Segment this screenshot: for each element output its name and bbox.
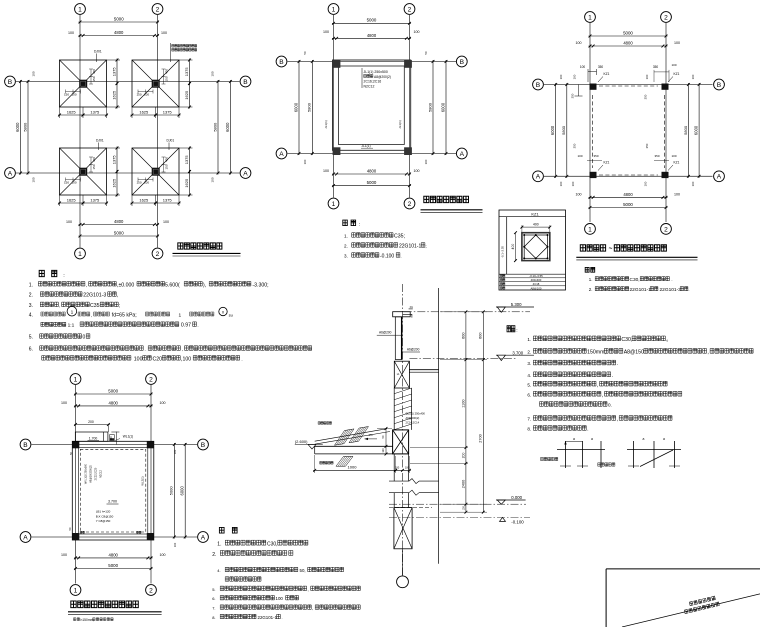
svg-text:1625: 1625 [184,90,189,100]
svg-text:B: B [243,79,248,86]
svg-text:A: A [8,170,13,177]
svg-text:5.: 5. [212,587,215,592]
svg-text:100: 100 [577,154,582,158]
svg-text:400: 400 [92,157,96,162]
svg-text:。: 。 [666,337,671,343]
svg-text:;: ; [119,303,120,309]
svg-text:.: . [688,287,689,292]
foundation note 4 line2 [41,322,66,326]
svg-text:150mm,: 150mm, [587,350,606,356]
plan2 right dimension 6000 [445,60,447,155]
footing note two lines at F2 with leader [172,44,197,47]
plan1 right dimension 6000 [230,80,232,175]
plan4 grid bubble B left [20,439,31,450]
F1 bottom dimension 1625/1375 [59,107,61,118]
svg-text:150: 150 [92,164,96,169]
svg-text:1: 1 [332,6,336,13]
break line symbol [389,480,409,482]
svg-text:5800: 5800 [22,122,27,132]
F3 side dimension 1375/1625 [107,147,121,149]
footing DJ01 F2 outline with diagonals [132,60,179,107]
plan2 left dimension 5800 [311,60,313,155]
roof level 3.700 dash-dot line [409,357,516,359]
svg-text:a: a [591,437,593,441]
svg-text:3.700: 3.700 [512,350,523,355]
plan1 grid bubble 1 bottom [75,248,86,259]
svg-text:A8@100/200(2): A8@100/200(2) [90,465,93,483]
plan4 grid bubble B right [198,439,209,450]
plan3 grid line 1 (vertical) [589,23,591,222]
svg-text:1375: 1375 [163,197,173,202]
svg-text:1: 1 [74,376,78,383]
svg-text:,: , [91,312,92,317]
KZ1 section detail: outer stirrup [522,233,550,261]
svg-text:3.: 3. [344,254,348,259]
plan4 grid bubble 1 bottom [70,585,81,596]
svg-text:100: 100 [173,542,177,547]
column KZ1 at plan3 2A [662,172,669,178]
svg-text:,: , [182,347,183,352]
svg-text:2.: 2. [212,552,216,558]
svg-text:B: B [279,59,284,66]
plan2 left dimension 6000 [298,60,300,155]
svg-text:5000: 5000 [114,230,124,235]
svg-text:A: A [536,174,541,181]
svg-text:DJ01: DJ01 [94,50,102,54]
svg-text:1.: 1. [217,542,221,548]
svg-text:4800: 4800 [367,33,377,38]
title block rotated text line1 [689,596,715,606]
svg-text:100: 100 [61,553,67,557]
svg-text:600: 600 [461,333,465,339]
svg-text:,100: ,100 [181,356,191,362]
svg-text:2.: 2. [344,244,348,249]
svg-text:100: 100 [134,356,143,362]
canopy dim 200 [74,424,110,426]
svg-text:1: 1 [71,309,74,315]
plan1 top dimension 100+4800+100 [79,35,160,37]
svg-text:6000: 6000 [440,102,445,112]
svg-text:100: 100 [160,553,166,557]
plan4 right dimension 6000 [184,443,186,539]
plan1 grid line 2 (vertical) [157,15,159,248]
svg-text:350: 350 [645,143,649,148]
svg-text:DJ01: DJ01 [167,139,175,143]
svg-text:400: 400 [165,69,169,74]
masonry wall hatched [393,388,395,430]
svg-text:N2C12: N2C12 [100,470,103,478]
svg-text:5000: 5000 [108,388,118,393]
plan3 grid bubble 1 bottom [585,224,596,235]
svg-text:2: 2 [408,201,412,208]
leader to grid bubble below section [402,549,404,576]
svg-text:100: 100 [71,181,76,185]
hidden beam line right (dashed) [664,95,666,168]
plan1 top dimension 5000 [79,21,160,23]
section right wall line (vertical) [438,288,440,564]
plan1 right dimension 5800 [217,80,219,175]
plan4 top dimension 5000 [74,393,153,395]
screed hatch bar 2 [349,427,369,443]
svg-text:100: 100 [163,220,169,224]
plan1 left dimension 6000 [20,80,22,175]
svg-text:KZ1: KZ1 [531,211,539,216]
svg-text:100: 100 [571,181,575,186]
rebar diagram left (support bars) [565,441,567,468]
footing DJ01 F1 outline with diagonals [60,60,107,107]
svg-text:-0.1~3.55: -0.1~3.55 [501,246,505,258]
svg-text:4800: 4800 [367,169,377,174]
roof beam rectangle inner [78,447,148,534]
roof edge beam section (X-box) [394,361,409,388]
svg-text:100: 100 [144,93,149,97]
plan3 grid line A (horizontal) [544,175,713,177]
svg-text:150: 150 [165,164,169,169]
title block diagonal [622,594,760,627]
svg-text:1.: 1. [344,234,348,239]
F1 side dimension 1375/1625 [107,59,121,61]
KZ1 section detail: diamond tie [524,235,547,258]
svg-text:0.000: 0.000 [511,495,522,500]
svg-text::: : [516,328,517,334]
svg-text:B: B [460,59,465,66]
plan1 bottom dimension 5000 [79,235,160,237]
table row: main bars [500,283,505,286]
footing DJ01 F3 outline with diagonals [60,148,107,195]
svg-text:350: 350 [593,154,598,158]
section outer dimension line (600/2700) [482,312,484,512]
plan4 right dimension 5000 [173,443,175,539]
plan1 title: independent foundation plan [178,243,222,249]
svg-text:B: B [201,442,206,449]
svg-text:,: , [59,303,60,308]
section centerline (dash-dot vertical) [402,284,404,575]
KZ1 section dim 400 top [522,226,550,228]
plan4 subtitle slab thickness note [74,618,80,621]
svg-text:1625: 1625 [67,109,77,114]
svg-text:4.: 4. [217,568,220,573]
svg-text:.: . [197,323,198,328]
svg-text:C30,: C30, [267,542,278,548]
svg-text:a: a [643,437,645,441]
plan4 note 4 line2 [225,577,261,581]
parapet top level 5.300 dash-dot line [404,311,530,313]
svg-text:100: 100 [671,63,676,67]
plan2 notes heading [343,220,356,226]
plan3 grid bubble 2 top [661,12,672,23]
beam annotation block JL1(1) 250x400 [361,68,363,88]
svg-text:5000: 5000 [114,16,124,21]
svg-text:600: 600 [479,333,483,339]
svg-text:1375: 1375 [184,155,189,165]
plan2 grid line 1 (vertical) [333,15,335,198]
svg-text:6000: 6000 [293,102,298,112]
svg-text:,: , [86,282,87,287]
plan3 left dimension 5800 [566,83,568,178]
plan3 grid bubble 2 bottom [661,224,672,235]
svg-text:6.: 6. [29,347,33,353]
table row lines [499,273,566,275]
plan1 grid bubble A left [5,168,16,179]
plan3 grid bubble B left [533,79,544,90]
svg-text:5000: 5000 [367,18,377,23]
foundation top dashed line [389,507,432,509]
svg-text:KZ1: KZ1 [674,161,680,165]
svg-text:1%: 1% [410,307,413,309]
table row: elevation [500,275,505,278]
svg-text:400: 400 [165,157,169,162]
svg-text:4800: 4800 [623,192,633,197]
plan3 grid bubble A right [714,171,725,182]
plan3 grid line B (horizontal) [544,84,713,86]
svg-text:2: 2 [156,6,160,13]
svg-text:B:X C8@150: B:X C8@150 [96,514,114,518]
svg-text:50,: 50, [300,568,306,573]
svg-text:350: 350 [644,94,648,99]
plan1 grid bubble B right [240,76,251,87]
svg-text:2700: 2700 [479,434,483,442]
column KZ1 at plan3 1B [590,84,597,90]
svg-text:2C16;2C16: 2C16;2C16 [364,80,382,84]
svg-text:QL1(1) 250x400: QL1(1) 250x400 [406,412,426,416]
plan4 grid bubble A left [20,532,31,543]
svg-text:1.: 1. [589,277,593,282]
plan2 grid line A (horizontal) [288,153,457,155]
canopy edge mini dims 50/120 [385,429,387,455]
svg-text:1625: 1625 [139,197,149,202]
svg-text:5000: 5000 [169,486,174,496]
svg-text:100: 100 [462,506,465,511]
svg-text:2: 2 [156,251,160,258]
svg-text:1375: 1375 [90,197,100,202]
svg-text:100: 100 [32,177,36,182]
svg-text:6000: 6000 [550,125,555,135]
wall dims 100+100 at slab junction [394,469,411,471]
foundation pier section (X-box) [394,508,412,549]
svg-text:.: . [145,347,146,352]
svg-text:1: 1 [78,6,82,13]
svg-text:6000: 6000 [15,122,20,132]
roof slab edge (dashed rectangle) [80,449,146,532]
svg-text:-3.300;: -3.300; [252,282,268,288]
svg-text:5800: 5800 [212,122,217,132]
plan2 grid bubble 2 top [404,4,415,15]
plan4 bottom dimension 5000 [74,568,153,570]
svg-text:6000: 6000 [180,485,185,495]
svg-text:1.: 1. [29,282,33,288]
svg-text:0: 0 [83,335,86,341]
plan2 bottom dimension 4800 [332,173,411,175]
svg-text:3.: 3. [29,303,33,309]
svg-text:1375: 1375 [184,67,189,77]
svg-text:2: 2 [408,6,412,13]
F4 bottom dimension 1625/1375 [131,195,133,206]
svg-text:B: B [23,442,28,449]
title block top edge [606,568,760,570]
svg-text:100: 100 [161,31,167,35]
svg-text:6000: 6000 [694,125,699,135]
svg-text:100: 100 [71,93,76,97]
svg-text:A6@200: A6@200 [379,331,392,335]
svg-text:.: . [617,361,618,367]
plan2 grid line B (horizontal) [288,61,457,63]
svg-text:100: 100 [645,74,649,79]
table left column separator [506,217,508,275]
svg-text:2: 2 [149,587,153,594]
svg-text:5000: 5000 [623,202,633,207]
plan4 top dimension 100+4800+100 [74,405,153,407]
column stub at F1 (solid) [79,80,87,88]
plan3 grid bubble A left [533,171,544,182]
plan3 top dimension 100+4800+100 [589,45,668,47]
elevation marker 5.300 [496,306,534,308]
svg-text:100: 100 [211,177,215,182]
plan4 corner column 1A [72,533,79,540]
svg-text:C30,: C30, [621,337,632,343]
svg-text:100: 100 [671,154,676,158]
KZ1 section rebar dots [523,234,525,236]
svg-text:5.: 5. [29,335,33,341]
svg-text:1: 1 [588,226,592,233]
svg-text::: : [359,222,360,228]
svg-text:1.700: 1.700 [89,436,98,440]
svg-text:JL1(1): JL1(1) [398,120,402,129]
svg-text:22G101-1: 22G101-1 [630,287,652,293]
svg-text:350: 350 [571,93,575,98]
svg-text:2: 2 [664,226,668,233]
svg-text:22G101-1: 22G101-1 [258,615,278,620]
corner slab labels [80,531,84,533]
svg-text:.: . [282,615,283,620]
svg-text:DJ01: DJ01 [96,139,104,143]
svg-text:A8@200(2): A8@200(2) [374,75,391,79]
svg-text:N2C12: N2C12 [364,84,375,88]
column at plan2 corner 1B [333,60,341,68]
svg-text:100: 100 [573,74,577,79]
svg-text:400: 400 [533,223,539,227]
elevation marker -0.100 [500,517,506,521]
svg-text:2C22;2C20: 2C22;2C20 [95,467,98,480]
svg-text:1: 1 [178,312,181,318]
plan4 corner column 2B [147,441,154,448]
KZ1 section dim 400 left [515,233,517,261]
svg-text:1100: 1100 [461,400,465,408]
table row: stirrups [500,287,505,290]
roof slab right of beam [409,369,438,371]
plan4 grid bubble 1 top [70,374,81,385]
svg-text:2.: 2. [29,293,33,299]
plan1 grid line A (horizontal) [16,172,240,174]
svg-text:,: , [308,587,309,592]
dim connector lines at levels [440,311,487,313]
plan4 grid line 2 (vertical) [150,385,152,584]
svg-text:.: . [671,277,672,282]
svg-text:2: 2 [664,14,668,21]
column stub at F4 (solid) [152,168,160,176]
svg-text:A: A [279,151,284,158]
svg-text:5800: 5800 [427,102,432,112]
svg-text:100: 100 [644,181,648,186]
svg-text:,: , [117,293,118,299]
ground level 0.000 dashed line [389,503,526,505]
plan1 grid bubble B left [5,76,16,87]
svg-text:0.: 0. [608,403,612,408]
svg-text:JL1(1): JL1(1) [324,120,328,129]
svg-text:B: B [536,82,541,89]
svg-text:1375: 1375 [90,109,100,114]
canopy finish note below [320,461,333,464]
elevation marker 0.000 [496,499,526,501]
svg-text:WL2(1): WL2(1) [141,476,145,485]
plan3 top dimension 5000 [589,35,668,37]
svg-text:4800: 4800 [109,552,119,557]
svg-text:(2.600): (2.600) [295,439,308,444]
svg-text:.: . [400,254,401,259]
svg-text:1:1: 1:1 [68,323,75,329]
plan4 title: roof beam slab reinforcement plan [71,601,138,608]
svg-text:A: A [243,170,248,177]
footing DJ01 F4 outline with diagonals [132,148,179,195]
svg-text:5.: 5. [527,382,531,387]
plan3 notes heading [585,267,595,272]
svg-text:KZ1: KZ1 [604,161,610,165]
right note 6 line2 [540,402,608,407]
column at plan2 corner 2B [404,60,412,68]
tie beam JL1 rectangle inner [339,66,405,145]
svg-text:150: 150 [165,76,169,81]
F3 bottom dimension 1625/1375 [59,195,61,206]
svg-text:150: 150 [64,181,69,185]
svg-text:A6@200(2): A6@200(2) [406,416,420,420]
svg-text:1375: 1375 [163,109,173,114]
svg-text:a: a [663,437,665,441]
svg-text:;: ; [425,244,426,249]
plan4 grid line 1 (vertical) [75,385,77,584]
plan3 grid bubble B right [714,79,725,90]
svg-text:50: 50 [303,51,307,55]
plan2 top dimension 5000 [332,22,411,24]
svg-text:5000: 5000 [367,180,377,185]
parapet coping cap [393,312,411,317]
plan1 grid line B (horizontal) [16,81,240,83]
svg-text:100: 100 [211,71,215,76]
plan4 grid bubble 2 bottom [146,585,157,596]
right notes heading [507,326,515,332]
svg-text:1000: 1000 [348,465,358,470]
svg-text:50: 50 [424,51,428,55]
plan1 grid bubble 1 top [75,4,86,15]
column at plan2 corner 2A [404,147,412,155]
svg-text:100: 100 [674,41,680,45]
svg-text:100: 100 [276,596,284,601]
plan4 corner column 2A [147,533,154,540]
svg-text:6.: 6. [212,596,215,601]
elevation marker 3.700 [496,354,534,356]
svg-text:su: su [229,312,233,317]
table header separator [499,216,566,218]
plan2 grid bubble A right [456,148,467,159]
svg-text:22G101-3: 22G101-3 [83,293,106,299]
svg-text:~: ~ [609,246,613,253]
svg-text:150: 150 [64,93,69,97]
svg-text:400: 400 [511,244,515,250]
svg-text:,: , [617,417,618,423]
plan1 left dimension 5800 [27,80,29,175]
wall below canopy [393,454,395,481]
svg-text:22G101-3: 22G101-3 [660,287,682,293]
column schedule table outer box [499,210,566,290]
svg-text:6000: 6000 [225,122,230,132]
